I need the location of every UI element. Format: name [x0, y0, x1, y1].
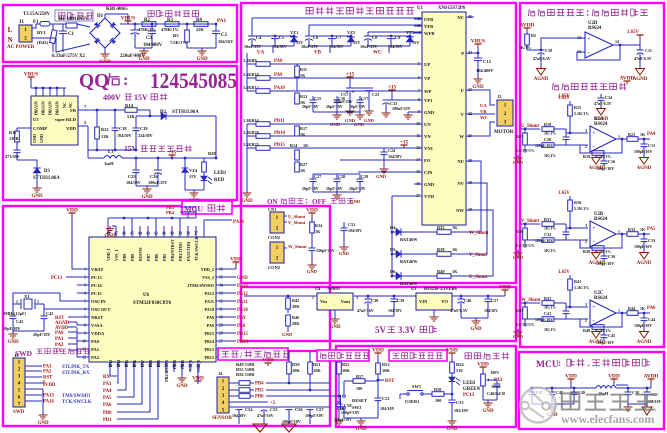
- svg-text:V_Shunt: V_Shunt: [469, 253, 488, 258]
- watermark text 融创芯城: [562, 393, 656, 409]
- svg-text:PB12: PB12: [204, 355, 214, 360]
- svg-text:20R: 20R: [292, 321, 300, 326]
- ground AGND out: [643, 329, 645, 332]
- resistor R46 20R: [286, 315, 291, 326]
- svg-text:10K: 10K: [313, 368, 321, 373]
- svg-text:C32: C32: [544, 232, 551, 237]
- ground U1 pin9: [408, 111, 414, 113]
- svg-text:0.33uF/275V X2: 0.33uF/275V X2: [52, 54, 86, 59]
- power flag VDD to VBAT: [71, 213, 73, 216]
- svg-text:5.1K/1%: 5.1K/1%: [574, 111, 589, 116]
- wire bias feedback: [613, 44, 640, 46]
- svg-text:QQ: QQ: [79, 71, 109, 92]
- capacitor C30 47uF/16V: [353, 295, 416, 297]
- capacitor filter 3: [573, 388, 575, 392]
- svg-text:PA10: PA10: [274, 86, 285, 91]
- svg-text:RS624: RS624: [588, 26, 602, 31]
- svg-text:14: 14: [615, 39, 619, 44]
- svg-text:1: 1: [84, 268, 86, 272]
- svg-text:R1 10D11NTC: R1 10D11NTC: [59, 17, 90, 22]
- svg-text:VDD: VDD: [306, 208, 318, 214]
- svg-text:GND: GND: [307, 269, 318, 274]
- svg-text:NV: NV: [457, 181, 464, 186]
- capacitor filter 1: [531, 388, 533, 392]
- svg-text:R50: R50: [292, 362, 300, 367]
- wire bias in: [541, 38, 585, 50]
- svg-text:GND: GND: [446, 427, 458, 432]
- ground J3: [25, 388, 43, 390]
- svg-text:GND: GND: [7, 340, 19, 345]
- title 霍尔/编码器接口: [218, 348, 288, 360]
- svg-text:VBUS: VBUS: [471, 39, 485, 45]
- svg-text:MCU: MCU: [536, 360, 559, 370]
- svg-text:W: W: [459, 134, 464, 139]
- svg-text:2: 2: [585, 318, 587, 323]
- svg-text:D4: D4: [390, 225, 396, 230]
- svg-text:104/10V: 104/10V: [380, 406, 395, 411]
- svg-text:C53: C53: [456, 400, 464, 405]
- svg-text:PB0: PB0: [103, 411, 112, 416]
- capacitor C3 104/400V: [151, 24, 153, 31]
- svg-text:PA0: PA0: [55, 331, 64, 336]
- svg-text:R10: R10: [574, 200, 581, 205]
- svg-text:PC13: PC13: [463, 393, 475, 398]
- svg-text:PA11: PA11: [237, 300, 248, 305]
- capacitor C33 100pF: [643, 234, 645, 239]
- svg-text:CON2: CON2: [268, 265, 280, 270]
- svg-text:R19: R19: [583, 154, 590, 159]
- svg-text:PB15: PB15: [274, 143, 286, 148]
- wire V phase: [466, 113, 495, 115]
- svg-text:5V: 5V: [375, 325, 387, 335]
- svg-text:VN1: VN1: [424, 146, 434, 151]
- svg-text:LED1: LED1: [214, 171, 227, 176]
- svg-text:R5: R5: [531, 33, 536, 38]
- op-amp U2A triangle: [590, 126, 616, 152]
- svg-text:C2: C2: [221, 33, 227, 38]
- svg-text:VO: VO: [441, 299, 448, 304]
- svg-text:viper16LD: viper16LD: [55, 117, 77, 122]
- svg-text:PB15: PB15: [237, 332, 249, 337]
- svg-text:20pF/10V: 20pF/10V: [33, 332, 50, 337]
- svg-text:V_Shunt: V_Shunt: [521, 219, 540, 224]
- svg-text:PA2: PA2: [43, 370, 52, 375]
- title MCU电路: [182, 201, 232, 214]
- capacitor filter 2: [551, 388, 553, 392]
- svg-text:C50: C50: [337, 406, 344, 411]
- wire filter rails: [530, 387, 596, 389]
- svg-text:U5: U5: [33, 117, 39, 122]
- resistor 510R row PB4: [229, 382, 239, 384]
- svg-text:BOOT0: BOOT0: [138, 247, 143, 261]
- power flag AVDD sense: [626, 81, 628, 84]
- svg-text:0.1/3W/1%: 0.1/3W/1%: [516, 244, 535, 248]
- power flag VBUS input: [30, 77, 32, 80]
- svg-text:+5: +5: [270, 401, 276, 406]
- svg-text:PA13: PA13: [43, 394, 54, 399]
- svg-text:1K/1%: 1K/1%: [544, 248, 556, 253]
- diode D5: [392, 253, 396, 255]
- svg-text:C23: C23: [372, 92, 379, 97]
- svg-text:GND: GND: [376, 174, 387, 179]
- diode D6: [392, 275, 396, 277]
- svg-text:C9: C9: [395, 35, 401, 40]
- capacitor C58 100pF: [338, 396, 340, 404]
- svg-text:AGND: AGND: [534, 77, 549, 82]
- svg-text:470K/1%: 470K/1%: [161, 27, 179, 32]
- svg-text:TCK/SWCLK: TCK/SWCLK: [62, 400, 92, 405]
- svg-text:PA0: PA0: [91, 339, 100, 344]
- svg-text:VSSA: VSSA: [91, 323, 103, 328]
- ground pot: [482, 386, 484, 400]
- resistor R5 1K/1%: [526, 31, 528, 34]
- capacitor C11 47uF/6.3V: [639, 45, 641, 50]
- pullup R51 10K: [309, 351, 311, 362]
- svg-text:1K: 1K: [303, 143, 309, 148]
- svg-text:SW1: SW1: [412, 384, 421, 389]
- svg-text:1K: 1K: [640, 306, 646, 311]
- resistor R5 7.5K/1%: [186, 24, 188, 30]
- svg-text:C18: C18: [119, 126, 127, 131]
- wire sensor 5V: [229, 401, 268, 403]
- svg-text:10uF/25V: 10uF/25V: [301, 44, 318, 49]
- inductor L2 10uH: [596, 386, 616, 389]
- svg-text:AGND: AGND: [637, 261, 652, 266]
- capacitor C2 104/16V: [215, 24, 217, 31]
- capacitor C2 bulk 220uF/400V: [134, 24, 136, 30]
- resistor 510R row PB5: [229, 389, 239, 391]
- svg-text:L: L: [8, 26, 13, 34]
- svg-text:104/10V: 104/10V: [388, 308, 402, 313]
- ground AGND filter: [642, 404, 652, 415]
- svg-text:GND: GND: [196, 57, 208, 62]
- svg-text:P: P: [461, 51, 464, 56]
- svg-text:3.3KR9: 3.3KR9: [243, 58, 257, 63]
- svg-text:W_Shunt: W_Shunt: [469, 231, 489, 236]
- svg-text:20pF/10V: 20pF/10V: [302, 104, 319, 109]
- svg-text:C40: C40: [464, 298, 471, 303]
- svg-text:RST: RST: [43, 376, 53, 381]
- wire N-line: [32, 38, 90, 52]
- svg-text:104/50V: 104/50V: [272, 44, 287, 49]
- pullup R52 10K: [338, 351, 340, 362]
- svg-text:VDD: VDD: [608, 374, 620, 380]
- svg-text:STLINK_TX: STLINK_TX: [62, 365, 90, 370]
- svg-text:GND: GND: [329, 325, 341, 330]
- resistor R58 100: [423, 393, 432, 395]
- svg-text:NRST: NRST: [91, 315, 103, 320]
- svg-text:LED2: LED2: [463, 381, 476, 386]
- svg-text:PA8: PA8: [207, 323, 214, 328]
- svg-text:VDD: VDD: [499, 285, 511, 291]
- ground filter right: [628, 403, 647, 405]
- svg-text:330pF/10V: 330pF/10V: [316, 248, 335, 253]
- power flag VDD user: [451, 353, 453, 356]
- svg-text:C3: C3: [146, 36, 152, 41]
- capacitor C32 100pF: [565, 228, 567, 232]
- power flag VDD pot: [482, 367, 484, 370]
- svg-text:C15: C15: [314, 96, 321, 101]
- capacitor C13 100pF: [643, 139, 645, 144]
- svg-text:J2: J2: [497, 94, 501, 99]
- wire output: [616, 312, 627, 314]
- svg-text:10uF/25V: 10uF/25V: [360, 44, 377, 49]
- svg-text:VDD: VDD: [66, 208, 78, 214]
- ground crystal: [13, 330, 44, 332]
- svg-text:C54: C54: [245, 407, 253, 412]
- resistor R27 1K: [295, 162, 300, 172]
- wire top rail: [108, 217, 196, 219]
- frame box7 keys-and-pot section: [336, 346, 516, 427]
- svg-text:104/400V: 104/400V: [476, 68, 494, 73]
- resistor R42 20R: [286, 298, 291, 309]
- svg-text:-: -: [593, 239, 595, 245]
- capacitor C37 104/16V: [487, 296, 489, 299]
- svg-text:D2: D2: [160, 110, 166, 115]
- svg-text:C29: C29: [361, 174, 368, 179]
- svg-text:510: 510: [456, 368, 463, 373]
- resistor R28: [203, 158, 205, 162]
- svg-text:1: 1: [618, 308, 620, 313]
- svg-text:470K/1%: 470K/1%: [138, 27, 156, 32]
- op-amp U2B triangle: [590, 221, 616, 247]
- wire VBUS to drains: [30, 80, 32, 88]
- svg-text:GND: GND: [364, 118, 375, 123]
- svg-text:15V: 15V: [134, 93, 148, 102]
- svg-text:OFF: OFF: [312, 198, 326, 206]
- diode D3 STTH1L06A: [17, 159, 37, 161]
- svg-text:47uF/6.3V: 47uF/6.3V: [450, 308, 468, 313]
- svg-text:PA4: PA4: [647, 132, 656, 137]
- feedback resistor R48 5.1K/1%: [580, 313, 622, 327]
- svg-text:PA9: PA9: [274, 73, 283, 78]
- svg-text:20pF/10V: 20pF/10V: [302, 186, 319, 191]
- capacitor bank +15 filter: [349, 77, 351, 80]
- svg-text:NU: NU: [457, 159, 464, 164]
- svg-text:RP1: RP1: [491, 370, 499, 375]
- svg-text:PB5: PB5: [255, 389, 264, 394]
- svg-text:C52: C52: [382, 396, 390, 401]
- svg-text:104/50V: 104/50V: [117, 133, 132, 138]
- svg-text:20pF/10V: 20pF/10V: [326, 186, 343, 191]
- svg-text::: :: [123, 72, 128, 89]
- svg-text:PC15: PC15: [91, 291, 102, 296]
- svg-text:1K: 1K: [452, 247, 458, 252]
- svg-text:15V: 15V: [124, 144, 138, 153]
- svg-text:R28: R28: [208, 151, 216, 156]
- svg-text:COMP: COMP: [33, 126, 47, 131]
- cap bank UA: [252, 17, 422, 19]
- svg-text:R42: R42: [292, 298, 299, 303]
- ground D3: [36, 185, 38, 188]
- resistor R45 shunt 0.1R: [524, 303, 526, 307]
- capacitor C24 104/50V: [383, 148, 385, 152]
- svg-text:PB4/NTRST: PB4/NTRST: [170, 239, 175, 261]
- svg-text:PA10: PA10: [205, 307, 214, 312]
- ground AGND bias1: [540, 64, 542, 66]
- ground U6 bottom: [181, 372, 183, 375]
- ground user key: [451, 418, 453, 421]
- capacitor C55 47uF/16V: [261, 406, 268, 408]
- svg-text:224/50V: 224/50V: [138, 133, 153, 138]
- wire W phase: [466, 122, 495, 136]
- svg-text:RST: RST: [385, 379, 395, 384]
- frame box4 gate-driver section: [241, 3, 516, 283]
- svg-text:VIN: VIN: [419, 299, 428, 304]
- svg-text:R14: R14: [290, 143, 298, 148]
- svg-text:VB: VB: [314, 51, 322, 56]
- capacitor C27 C28 C29 20pF: [312, 174, 314, 179]
- ic U5 viper16LD: [31, 96, 78, 145]
- ground cap trio 2: [336, 192, 338, 195]
- wire L-line: [32, 24, 40, 28]
- ground AGND stage: [595, 328, 597, 330]
- svg-text:VDD_1: VDD_1: [106, 248, 111, 261]
- svg-text:D5: D5: [390, 247, 396, 252]
- svg-text:C17: C17: [361, 96, 368, 101]
- svg-text:20pF/10V: 20pF/10V: [3, 326, 20, 331]
- svg-text:ON: ON: [267, 198, 278, 206]
- svg-text:C5: C5: [279, 35, 285, 40]
- svg-text:R3: R3: [167, 18, 173, 23]
- svg-text:JTMS/SWDIO: JTMS/SWDIO: [187, 283, 215, 288]
- wire bridge output: [104, 14, 106, 18]
- feedback resistor R19 5.1K/1%: [580, 139, 622, 153]
- svg-text:D3: D3: [44, 169, 50, 174]
- svg-text:TX: TX: [55, 349, 62, 354]
- svg-text:U_Shunt: U_Shunt: [469, 275, 488, 280]
- svg-text:1K/1%: 1K/1%: [544, 153, 556, 158]
- svg-text:104/400V: 104/400V: [143, 43, 163, 48]
- svg-text:VDD: VDD: [446, 348, 458, 354]
- svg-text:PB11: PB11: [274, 119, 285, 124]
- svg-text:1.65V: 1.65V: [627, 30, 639, 35]
- svg-text:R34: R34: [315, 223, 323, 228]
- svg-text:15V: 15V: [412, 40, 419, 45]
- capacitor C42 20pF: [43, 309, 45, 316]
- svg-text:D1: D1: [97, 14, 104, 19]
- svg-text:PA15/JTDI: PA15/JTDI: [186, 241, 191, 261]
- wire +15 input: [244, 295, 317, 297]
- svg-text:100uF/25V: 100uF/25V: [392, 106, 411, 111]
- svg-text:0.1/3W/1%: 0.1/3W/1%: [516, 323, 535, 327]
- capacitor C19 224/50V: [135, 116, 137, 128]
- svg-text:OSCOUT: OSCOUT: [91, 307, 110, 312]
- svg-text:20pF/10V: 20pF/10V: [326, 104, 343, 109]
- svg-text:R56 510R: R56 510R: [236, 372, 255, 377]
- ground R36: [517, 250, 519, 253]
- frame box3 MCU section: [3, 206, 330, 426]
- svg-text:(D43): (D43): [37, 40, 48, 45]
- svg-text:15V: 15V: [189, 174, 197, 179]
- svg-text:GND: GND: [237, 276, 248, 281]
- svg-text:1K: 1K: [640, 132, 646, 137]
- svg-text:C36: C36: [608, 254, 615, 259]
- svg-text:C6: C6: [313, 35, 319, 40]
- power flag AVDD filter: [650, 379, 652, 382]
- ground VSS top: [112, 225, 116, 227]
- ground ladder2: [246, 124, 248, 190]
- svg-text:VSS_1: VSS_1: [114, 250, 119, 261]
- svg-text:GND: GND: [513, 334, 524, 339]
- svg-text:R39: R39: [583, 249, 590, 254]
- svg-text:1.65V: 1.65V: [558, 96, 570, 101]
- svg-text:SW2: SW2: [352, 405, 362, 410]
- svg-text:C17: C17: [341, 92, 348, 97]
- svg-text:R17: R17: [300, 126, 307, 131]
- svg-text:GND: GND: [282, 332, 293, 337]
- ground AGND out: [643, 155, 645, 158]
- svg-text:VZ3: VZ3: [406, 30, 415, 35]
- svg-text:RS624: RS624: [594, 122, 608, 127]
- svg-text:PA6: PA6: [103, 403, 112, 408]
- svg-text:104/10V: 104/10V: [232, 413, 246, 418]
- svg-text:C20: C20: [544, 137, 551, 142]
- power flag +15: [171, 155, 173, 158]
- svg-text:100: 100: [435, 398, 441, 403]
- ic U6 STM32F030C8T6: [89, 237, 216, 362]
- svg-text:C45: C45: [608, 333, 615, 338]
- svg-text:0.1/3W/1%: 0.1/3W/1%: [516, 149, 535, 153]
- capacitor C26 100uF/25V: [157, 158, 159, 170]
- capacitor C54 104/10V: [236, 406, 243, 408]
- wire NV to shunt: [468, 183, 487, 254]
- resistor R11 1K: [295, 66, 300, 77]
- svg-text:PB1: PB1: [103, 418, 112, 423]
- svg-text:SENSOR: SENSOR: [212, 416, 232, 421]
- svg-text:DRAIN: DRAIN: [55, 101, 60, 115]
- svg-text:VTH: VTH: [424, 194, 434, 199]
- capacitor C34 47uF/6.3V: [600, 94, 602, 98]
- ground filter left: [532, 403, 574, 405]
- title 电源接口: [55, 10, 93, 21]
- svg-text:PC14: PC14: [91, 283, 102, 288]
- svg-text:UA: UA: [480, 103, 487, 108]
- svg-text:STLINK_RX: STLINK_RX: [62, 371, 90, 376]
- wire NU to shunt: [468, 161, 481, 232]
- svg-text:PA5: PA5: [103, 396, 112, 401]
- ground R23: [517, 155, 519, 158]
- title 电源电压检测: [148, 10, 199, 17]
- svg-text:VDD: VDD: [45, 383, 56, 388]
- svg-text:PA5: PA5: [647, 227, 656, 232]
- svg-text:AGND: AGND: [589, 340, 604, 345]
- capacitor C45 100pF: [603, 327, 605, 335]
- svg-text:R48: R48: [583, 328, 590, 333]
- svg-text:10K: 10K: [382, 368, 390, 373]
- power flag VDD filter1: [570, 379, 572, 382]
- svg-text:VZ2: VZ2: [347, 30, 355, 35]
- cap bank WC: [368, 31, 422, 33]
- capacitor C53 102/10V: [451, 394, 453, 400]
- svg-text:VDD: VDD: [565, 374, 577, 380]
- svg-text:GND: GND: [424, 110, 435, 115]
- svg-text:C10: C10: [545, 48, 552, 53]
- svg-text:+: +: [593, 306, 596, 311]
- svg-text:AVDD: AVDD: [644, 374, 659, 380]
- svg-text:47uF/16V: 47uF/16V: [257, 413, 274, 418]
- svg-text:1K: 1K: [640, 227, 646, 232]
- svg-text:100pF/10V: 100pF/10V: [634, 245, 652, 249]
- svg-text:C41: C41: [544, 311, 551, 316]
- svg-text:U_Shunt: U_Shunt: [288, 214, 306, 219]
- svg-text:1K: 1K: [452, 225, 458, 230]
- svg-text:C12: C12: [483, 59, 492, 64]
- svg-text:VBUS: VBUS: [24, 72, 38, 78]
- svg-text:VZ4: VZ4: [189, 168, 198, 173]
- svg-text:PA8: PA8: [274, 59, 283, 64]
- svg-text:WP: WP: [424, 89, 432, 94]
